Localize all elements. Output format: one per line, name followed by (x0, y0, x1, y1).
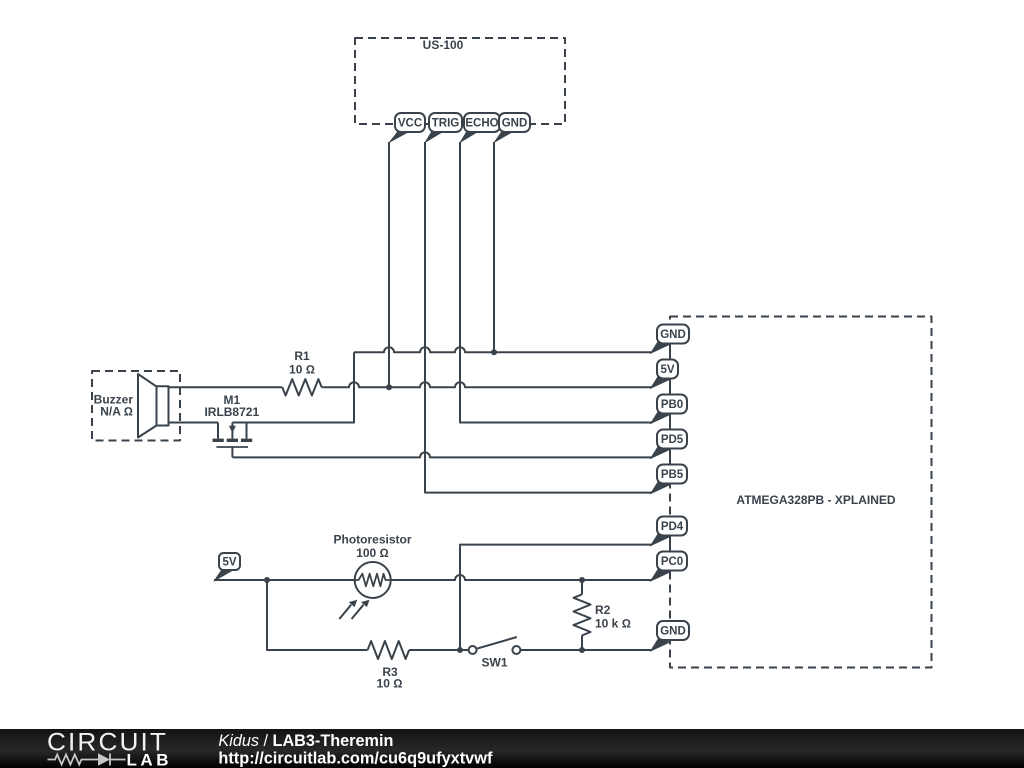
wire: M1 source/body to GND rail (up at x=354) (232, 352, 354, 422)
wire: US-100 ECHO down and to ATMEGA PB0 (460, 142, 652, 423)
svg-text:ECHO: ECHO (465, 118, 498, 130)
ATMEGA pin GND (650, 325, 690, 355)
svg-text:http://circuitlab.com/cu6q9ufy: http://circuitlab.com/cu6q9ufyxtvwf (218, 749, 492, 768)
svg-text:Kidus / LAB3-Theremin: Kidus / LAB3-Theremin (218, 731, 393, 750)
ATMEGA pin GND (bottom) (650, 621, 690, 652)
ATMEGA pin 5V (650, 360, 679, 390)
svg-text:N/A Ω: N/A Ω (100, 405, 133, 419)
wire: node A down to R3 (267, 580, 368, 650)
resistor R1 (282, 379, 321, 395)
junction node: PD4 / R3 / SW1 (457, 647, 463, 653)
ATMEGA pin PD4 (650, 517, 688, 547)
US-100 pin GND (493, 113, 530, 144)
US-100 pin TRIG (424, 113, 462, 144)
resistor R2 (vertical) (574, 580, 591, 650)
buzzer BZ1 dashed box (92, 371, 180, 441)
svg-text:US-100: US-100 (423, 38, 464, 52)
wire: SW1 to ATMEGA GND pin (521, 649, 652, 651)
photoresistor symbol (339, 562, 390, 619)
wire: buzzer top to resistor R1 (169, 386, 283, 388)
junction node: R2 bottom / GND (579, 647, 585, 653)
wire: US-100 TRIG down and to ATMEGA PB5 (425, 142, 652, 493)
wire: GND rail to ATMEGA GND pin (hops at x=389,425,460) (354, 347, 652, 352)
speaker symbol (buzzer) (138, 374, 169, 438)
switch SW1 (469, 637, 521, 654)
svg-text:10 k Ω: 10 k Ω (595, 617, 631, 631)
ATMEGA pin PB5 (650, 465, 688, 495)
svg-text:PB0: PB0 (661, 399, 683, 411)
svg-text:100 Ω: 100 Ω (356, 546, 389, 560)
svg-text:LAB: LAB (127, 751, 169, 768)
footer bar (0, 729, 1024, 768)
FOOTER (0, 729, 1024, 768)
logo resistor + diode (48, 753, 126, 765)
svg-text:10 Ω: 10 Ω (289, 363, 315, 377)
svg-text:PD4: PD4 (661, 521, 684, 533)
transistor M1 IRLB8721 (213, 423, 253, 458)
junction node: R2 top / PC0 (579, 577, 585, 583)
svg-text:5V: 5V (660, 364, 674, 376)
wire: ATMEGA PD4 left and down to switch node (460, 545, 652, 650)
svg-text:ATMEGA328PB - XPLAINED: ATMEGA328PB - XPLAINED (736, 493, 895, 507)
svg-text:TRIG: TRIG (432, 118, 460, 130)
junction node A: 5V source split (264, 577, 270, 583)
svg-text:GND: GND (502, 118, 528, 130)
svg-text:GND: GND (660, 626, 686, 638)
resistor R3 (368, 641, 410, 659)
svg-text:R1: R1 (294, 349, 310, 363)
wire: R1 to ATMEGA 5V pin (hops at x=354,425,460) (322, 382, 652, 387)
svg-text:VCC: VCC (398, 118, 422, 130)
svg-text:10 Ω: 10 Ω (377, 677, 403, 691)
junction node: VCC / 5V rail (386, 384, 392, 390)
svg-text:Photoresistor: Photoresistor (333, 533, 411, 547)
wire: R3 to switch SW1 (409, 649, 468, 651)
voltage source pin 5V (bottom left) (213, 553, 240, 582)
wire: US-100 GND down to GND rail (493, 142, 495, 352)
wire: 5V source to photoresistor (214, 579, 355, 581)
module US-100 (dashed box) (355, 38, 565, 124)
US-100 pin ECHO (459, 113, 500, 144)
wire: US-100 VCC down to 5V rail (388, 142, 390, 387)
svg-text:PD5: PD5 (661, 434, 684, 446)
junction node: US-100 GND / GND rail (491, 349, 497, 355)
wire: M1 gate to ATMEGA PD5 (hop at x=425) (232, 452, 651, 457)
wire: buzzer bottom to M1 drain (169, 422, 219, 424)
svg-text:R2: R2 (595, 603, 611, 617)
svg-text:IRLB8721: IRLB8721 (204, 405, 259, 419)
wire: photoresistor to ATMEGA PC0 (hop at x=460) (391, 575, 652, 580)
svg-text:PB5: PB5 (661, 469, 684, 481)
svg-text:SW1: SW1 (481, 655, 507, 669)
ATMEGA pin PD5 (650, 430, 688, 460)
ATMEGA pin PB0 (650, 395, 688, 425)
ATMEGA pin PC0 (650, 552, 688, 583)
US-100 pin VCC (388, 113, 425, 144)
svg-text:GND: GND (660, 329, 686, 341)
svg-text:PC0: PC0 (661, 556, 683, 568)
module ATMEGA328PB - XPLAINED (dashed box) (670, 317, 932, 668)
svg-text:5V: 5V (222, 557, 236, 569)
